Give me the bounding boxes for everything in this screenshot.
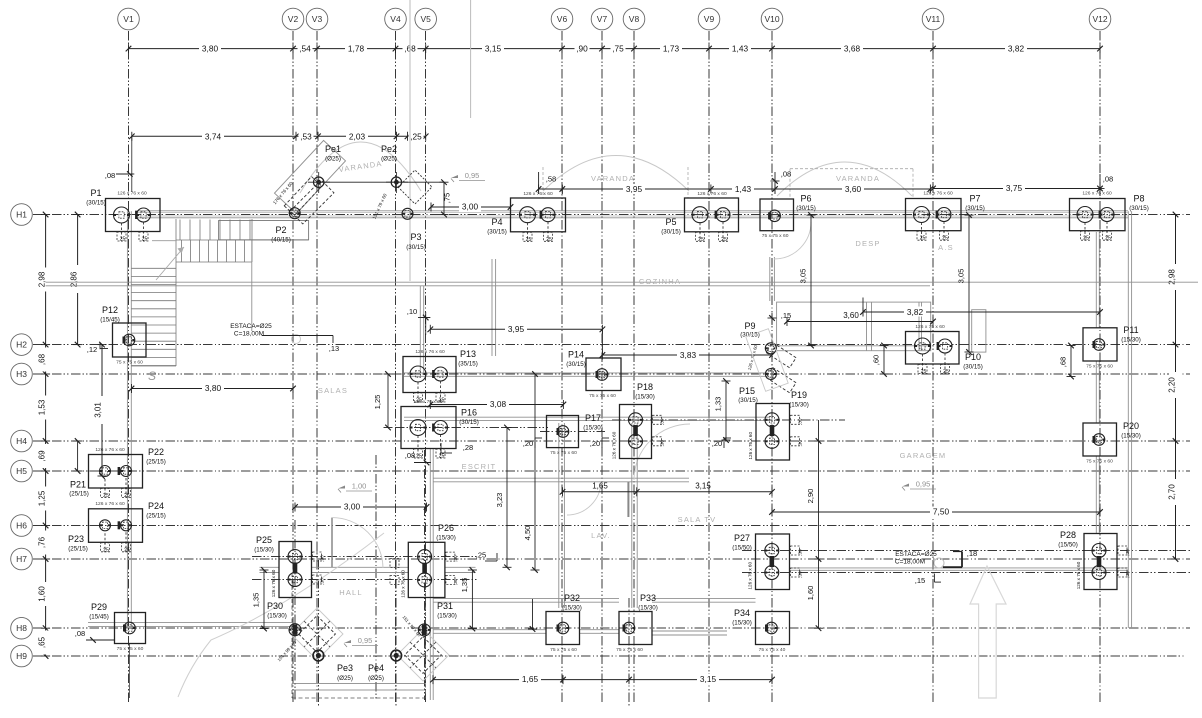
- column P17: [547, 416, 579, 448]
- dim 1,35 porch left: [263, 570, 265, 629]
- level mark 0,95 garagem: [902, 484, 909, 487]
- svg-text:Pe3: Pe3: [337, 663, 353, 673]
- svg-text:3,75: 3,75: [1006, 183, 1023, 193]
- section line top gray 2: [470, 0, 472, 118]
- column P24: [89, 509, 143, 543]
- axis H2 line: [33, 344, 1190, 346]
- axis bubble H2: [11, 334, 33, 356]
- svg-text:(25/15): (25/15): [146, 459, 166, 466]
- column P7: [906, 199, 962, 231]
- axis V7 line: [601, 31, 603, 703]
- garage window band: [777, 302, 931, 351]
- wall cozinha x493: [491, 259, 493, 356]
- porch dashed outline: [291, 573, 293, 698]
- svg-text:(30/15): (30/15): [86, 200, 106, 207]
- svg-text:(15/30): (15/30): [635, 394, 655, 401]
- svg-text:(25/15): (25/15): [69, 491, 89, 498]
- stair landing beam rect: [219, 221, 309, 240]
- svg-text:P15: P15: [739, 386, 755, 396]
- wall beam along H3: [404, 372, 768, 374]
- level mark 0,95 varanda: [451, 175, 458, 178]
- svg-text:75 x 75 x 60: 75 x 75 x 60: [117, 646, 144, 652]
- pile column axis x396: [395, 560, 397, 706]
- pile Pe3: [313, 650, 324, 661]
- svg-text:3,60: 3,60: [843, 311, 859, 320]
- svg-text:,30: ,30: [798, 549, 803, 556]
- svg-text:1,43: 1,43: [732, 44, 749, 54]
- axis V6 line: [561, 31, 563, 703]
- svg-text:(40/15): (40/15): [271, 237, 291, 244]
- svg-text:V6: V6: [557, 14, 568, 24]
- svg-text:,30: ,30: [660, 418, 665, 425]
- svg-text:P10: P10: [965, 352, 981, 362]
- wall v8 below: [631, 423, 633, 608]
- svg-text:1,33: 1,33: [714, 397, 723, 412]
- varanda arc right: [777, 162, 912, 196]
- door arc salatv: [634, 424, 690, 480]
- svg-text:(30/15): (30/15): [566, 361, 586, 368]
- axis H7 line: [33, 558, 1190, 560]
- svg-text:P20: P20: [1123, 421, 1139, 431]
- svg-text:P22: P22: [148, 447, 164, 457]
- svg-text:1,60: 1,60: [37, 586, 46, 602]
- pile row axis y420: [612, 419, 845, 421]
- stair upper flight risers: [180, 220, 250, 241]
- svg-text:,53: ,53: [300, 131, 312, 141]
- svg-text:,58: ,58: [546, 175, 557, 184]
- dim ,60 vertical: [883, 346, 885, 375]
- svg-text:H5: H5: [16, 466, 27, 476]
- svg-text:P5: P5: [665, 217, 676, 227]
- svg-text:25: 25: [103, 547, 109, 553]
- svg-text:P18: P18: [637, 382, 653, 392]
- dim 1,60 vertical: [818, 559, 820, 628]
- pile row axis y549: [742, 550, 1190, 552]
- dim 1,33 vertical: [725, 381, 727, 440]
- svg-text:75 x 75 x 60: 75 x 75 x 60: [616, 647, 643, 653]
- door arc lav: [567, 481, 601, 515]
- pile Pe2: [391, 177, 401, 187]
- svg-text:3,15: 3,15: [485, 44, 502, 54]
- svg-text:(30/15): (30/15): [738, 397, 758, 404]
- axis V1 line: [128, 31, 130, 703]
- svg-text:H9: H9: [16, 651, 27, 661]
- dimension 3,01: [101, 345, 103, 476]
- svg-text:,68: ,68: [1059, 357, 1068, 367]
- svg-text:(30/15): (30/15): [459, 419, 479, 426]
- porch steps: [292, 683, 426, 685]
- svg-text:(30/15): (30/15): [487, 229, 507, 236]
- svg-text:(15/30): (15/30): [267, 613, 287, 620]
- svg-text:126 x 76 x 60: 126 x 76 x 60: [95, 447, 125, 453]
- svg-text:1,65: 1,65: [592, 482, 608, 491]
- svg-text:3,60: 3,60: [845, 184, 862, 194]
- column P6: [760, 199, 794, 231]
- axis V3 line: [316, 31, 318, 703]
- axis bubble V11: [922, 8, 944, 30]
- axis bubble V7: [591, 8, 613, 30]
- stair frame: [175, 219, 177, 366]
- svg-text:,75: ,75: [443, 193, 452, 203]
- column P13: [403, 357, 456, 393]
- pile Pe4: [391, 650, 402, 661]
- svg-text:,30: ,30: [453, 578, 458, 585]
- svg-text:VARANDA: VARANDA: [836, 174, 880, 183]
- wall salas right x422: [419, 286, 421, 373]
- svg-text:126 x 76 x 60: 126 x 76 x 60: [1082, 191, 1112, 197]
- svg-text:(15/30): (15/30): [789, 402, 809, 409]
- column P5: [685, 198, 739, 232]
- pile column axis x629: [628, 598, 630, 706]
- axis H3 line: [33, 373, 1190, 375]
- svg-text:P21: P21: [70, 480, 86, 490]
- svg-text:C=18,00M: C=18,00M: [234, 331, 264, 338]
- svg-text:,30: ,30: [1125, 571, 1130, 578]
- svg-text:,69: ,69: [37, 450, 46, 462]
- wall lav bottom y600: [433, 597, 619, 599]
- svg-text:SALA TV: SALA TV: [678, 515, 717, 524]
- wall interior y283: [46, 281, 1198, 283]
- level mark 0,95 porch: [344, 640, 351, 643]
- svg-text:,30: ,30: [798, 440, 803, 447]
- dim ,75 varanda vertical: [443, 182, 445, 214]
- column P11: [1083, 328, 1117, 361]
- svg-text:,20: ,20: [712, 439, 722, 448]
- pile column axis x318: [317, 560, 319, 706]
- column P33: [619, 612, 652, 645]
- dim 3,15 mid: [637, 491, 772, 493]
- svg-text:3,74: 3,74: [205, 131, 222, 141]
- axis V10 line: [771, 31, 773, 703]
- svg-text:25: 25: [942, 236, 948, 242]
- svg-text:(30/15): (30/15): [661, 229, 681, 236]
- top dimension chain: [129, 48, 1101, 50]
- dim 1,25 vertical: [387, 374, 389, 428]
- garage window band right: [972, 310, 986, 352]
- svg-text:(15/30): (15/30): [732, 620, 752, 627]
- svg-text:(15/30): (15/30): [562, 605, 582, 612]
- svg-text:ESTACA=Ø25: ESTACA=Ø25: [230, 323, 272, 330]
- svg-text:,65: ,65: [37, 636, 46, 648]
- wall bottom left along H8: [88, 621, 292, 623]
- axis bubble H5: [11, 460, 33, 482]
- column P10: [906, 332, 960, 365]
- svg-text:V1: V1: [123, 14, 134, 24]
- svg-text:1,60: 1,60: [806, 586, 815, 601]
- svg-text:V11: V11: [926, 14, 941, 24]
- svg-text:P34: P34: [734, 608, 750, 618]
- svg-text:(15/45): (15/45): [100, 317, 120, 324]
- svg-text:(15/50): (15/50): [1058, 542, 1078, 549]
- svg-text:(30/15): (30/15): [963, 364, 983, 371]
- svg-text:P3: P3: [410, 232, 421, 242]
- svg-text:3,08: 3,08: [490, 399, 507, 409]
- svg-text:(15/30): (15/30): [437, 613, 457, 620]
- second dimension chain: [132, 135, 426, 137]
- svg-text:126 x 76 x 60: 126 x 76 x 60: [748, 432, 753, 460]
- svg-text:,12: ,12: [87, 345, 98, 354]
- door jamb salatv: [627, 482, 629, 517]
- dim 3,95 salas: [430, 328, 602, 330]
- column P2 rotated: [274, 140, 345, 213]
- svg-text:H7: H7: [16, 554, 27, 564]
- svg-text:V8: V8: [629, 14, 640, 24]
- svg-text:P29: P29: [91, 602, 107, 612]
- pile row axis y427.5: [395, 427, 548, 429]
- stair arrow: [156, 247, 184, 280]
- axis bubble V10: [761, 8, 783, 30]
- axis bubble V5: [415, 8, 437, 30]
- svg-text:P33: P33: [640, 593, 656, 603]
- axis bubble H9: [11, 645, 33, 667]
- dim 3,83: [602, 354, 772, 356]
- svg-text:S: S: [148, 369, 156, 383]
- svg-text:SALAS: SALAS: [318, 386, 348, 395]
- svg-text:75 x 75 x 60: 75 x 75 x 60: [550, 450, 577, 456]
- svg-text:3,95: 3,95: [626, 184, 643, 194]
- svg-text:P17: P17: [585, 413, 601, 423]
- svg-text:3,95: 3,95: [508, 324, 525, 334]
- wall left vertical: [126, 211, 128, 626]
- svg-text:3,05: 3,05: [957, 269, 966, 284]
- svg-text:75 x 75 x 40: 75 x 75 x 40: [759, 647, 786, 653]
- svg-text:75 x 75 x 60: 75 x 75 x 60: [589, 393, 616, 399]
- svg-text:25: 25: [120, 237, 126, 243]
- svg-text:2,20: 2,20: [1167, 377, 1176, 393]
- svg-text:25: 25: [1083, 236, 1089, 242]
- svg-text:25: 25: [124, 493, 130, 499]
- svg-text:1,25: 1,25: [37, 490, 46, 506]
- dim 4,50 vertical: [534, 374, 536, 570]
- svg-text:25: 25: [943, 369, 949, 375]
- svg-text:(25/15): (25/15): [146, 513, 166, 520]
- right dimension chain: [1175, 215, 1177, 560]
- svg-text:3,15: 3,15: [695, 482, 711, 491]
- svg-text:0,95: 0,95: [916, 480, 931, 489]
- dim 3,74row done / dim varanda line y187.5: [539, 188, 931, 190]
- svg-text:1,43: 1,43: [735, 184, 752, 194]
- svg-text:3,00: 3,00: [462, 202, 479, 212]
- column P30 pile: [289, 624, 301, 636]
- axis H6 line: [33, 525, 1190, 527]
- svg-text:25: 25: [103, 493, 109, 499]
- axis bubble H3: [11, 363, 33, 385]
- svg-text:1,00: 1,00: [352, 482, 367, 491]
- svg-text:,18: ,18: [967, 549, 978, 558]
- svg-text:,08: ,08: [781, 170, 792, 179]
- svg-text:H4: H4: [16, 436, 27, 446]
- dim 2,90 vertical: [818, 420, 820, 559]
- pile Pe1: [314, 177, 324, 187]
- column P27: [756, 534, 790, 590]
- svg-text:7,50: 7,50: [933, 507, 950, 517]
- svg-text:,30: ,30: [1125, 549, 1130, 556]
- svg-text:126 x 76 x 60: 126 x 76 x 60: [923, 191, 953, 197]
- door arc desp: [774, 222, 811, 259]
- column P4: [511, 198, 566, 232]
- wall desp x772: [769, 257, 771, 301]
- dim 1,35 porch right: [471, 570, 473, 629]
- dim 3,23 vertical: [506, 428, 508, 568]
- dim 3,08: [430, 404, 563, 406]
- varanda arc middle: [543, 156, 689, 192]
- svg-text:(30/15): (30/15): [965, 205, 985, 212]
- svg-text:126 x 76 x 60: 126 x 76 x 60: [413, 399, 443, 405]
- svg-text:126 x 76 x 60: 126 x 76 x 60: [612, 431, 617, 459]
- svg-text:(Ø25): (Ø25): [368, 675, 384, 682]
- axis bubble H4: [11, 430, 33, 452]
- svg-text:V4: V4: [390, 14, 401, 24]
- svg-text:V2: V2: [288, 14, 299, 24]
- svg-text:(30/15): (30/15): [406, 244, 426, 251]
- svg-text:,20: ,20: [523, 439, 533, 448]
- svg-text:P13: P13: [460, 349, 476, 359]
- wall right vertical: [1127, 211, 1129, 628]
- axis bubble V1: [118, 8, 140, 30]
- svg-text:25: 25: [721, 237, 727, 243]
- svg-text:0,95: 0,95: [465, 171, 480, 180]
- axis bubble V3: [306, 8, 328, 30]
- axis V4 line: [395, 31, 397, 703]
- stair middle flight risers: [182, 240, 245, 262]
- svg-text:2,03: 2,03: [349, 131, 366, 141]
- svg-text:126 x 76 x 60: 126 x 76 x 60: [95, 501, 125, 507]
- svg-text:P8: P8: [1133, 194, 1144, 204]
- svg-text:,20: ,20: [590, 439, 600, 448]
- axis bubble H1: [11, 204, 33, 226]
- svg-text:25: 25: [124, 547, 130, 553]
- svg-text:ESCRIT: ESCRIT: [462, 462, 497, 471]
- axis bubble H6: [11, 515, 33, 537]
- svg-text:V10: V10: [764, 14, 779, 24]
- pile column axis x376: [375, 455, 377, 700]
- svg-text:75 x 75 x 60: 75 x 75 x 60: [550, 647, 577, 653]
- svg-text:75 x 75 x 60: 75 x 75 x 60: [1086, 459, 1113, 465]
- axis bubble H7: [11, 548, 33, 570]
- hall door leaf and arc: [331, 518, 333, 568]
- svg-text:,28: ,28: [463, 443, 473, 452]
- section line top gray: [409, 0, 411, 281]
- svg-text:126 x 76 x 60: 126 x 76 x 60: [271, 569, 276, 597]
- column P14: [586, 358, 621, 391]
- axis V5 line: [425, 31, 427, 703]
- svg-text:VARANDA: VARANDA: [591, 174, 635, 183]
- svg-text:(35/15): (35/15): [458, 361, 478, 368]
- svg-text:3,05: 3,05: [799, 269, 808, 284]
- svg-text:,25: ,25: [410, 131, 422, 141]
- svg-text:1,65: 1,65: [522, 674, 539, 684]
- pile column axis x295: [294, 520, 296, 700]
- svg-text:2,70: 2,70: [1167, 484, 1176, 500]
- svg-text:(Ø25): (Ø25): [337, 675, 353, 682]
- dim 3,00 left of P4: [431, 206, 511, 208]
- svg-text:,08: ,08: [75, 629, 85, 638]
- svg-text:V9: V9: [704, 14, 715, 24]
- svg-text:,30: ,30: [798, 571, 803, 578]
- wall bottom beams y630: [433, 629, 546, 631]
- svg-text:1,35: 1,35: [460, 578, 469, 593]
- svg-text:(15/30): (15/30): [436, 535, 456, 542]
- dim 7,50: [772, 511, 1100, 513]
- svg-text:V7: V7: [597, 14, 608, 24]
- svg-text:126 x 76 x 60: 126 x 76 x 60: [415, 349, 445, 355]
- svg-text:3,23: 3,23: [495, 493, 504, 508]
- axis bubble V4: [385, 8, 407, 30]
- svg-text:126 x 76 x 60: 126 x 76 x 60: [748, 562, 753, 590]
- svg-text:2,90: 2,90: [806, 489, 815, 504]
- svg-text:P2: P2: [275, 225, 286, 235]
- svg-text:75 x 75 x 60: 75 x 75 x 60: [1086, 364, 1113, 370]
- svg-text:126 x 76 x 60: 126 x 76 x 60: [1076, 561, 1081, 589]
- svg-text:P11: P11: [1123, 325, 1138, 335]
- column P29: [115, 613, 146, 644]
- svg-text:75 x 75 x 60: 75 x 75 x 60: [762, 233, 789, 239]
- svg-text:(30/15): (30/15): [796, 205, 816, 212]
- svg-text:Pe4: Pe4: [368, 663, 384, 673]
- svg-text:1,25: 1,25: [373, 395, 382, 410]
- column P16: [401, 407, 456, 449]
- svg-text:(25/15): (25/15): [68, 546, 88, 553]
- svg-text:4,50: 4,50: [523, 526, 532, 541]
- svg-text:LAV.: LAV.: [591, 531, 611, 540]
- svg-text:1,73: 1,73: [663, 44, 680, 54]
- svg-text:3,15: 3,15: [700, 674, 717, 684]
- axis V11 line: [932, 31, 934, 703]
- pile row axis y572: [742, 572, 1190, 574]
- svg-text:25: 25: [921, 369, 927, 375]
- axis H8 line: [33, 627, 1190, 629]
- axis bubble H8: [11, 617, 33, 639]
- wall lav top y480: [433, 477, 689, 479]
- axis bubble V9: [698, 8, 720, 30]
- axis bubble V8: [623, 8, 645, 30]
- axis bubble V2: [282, 8, 304, 30]
- column P8: [1070, 199, 1126, 231]
- svg-text:25: 25: [526, 237, 532, 243]
- svg-text:25: 25: [920, 236, 926, 242]
- svg-text:126 x 76 x 60: 126 x 76 x 60: [117, 191, 147, 197]
- svg-text:DESP: DESP: [855, 239, 880, 248]
- column P3: [402, 208, 413, 219]
- svg-text:126 x 76 x 60: 126 x 76 x 60: [697, 191, 727, 197]
- beam corridor y419: [404, 416, 770, 418]
- svg-text:1,78: 1,78: [348, 44, 365, 54]
- left dimension chain inner 2,86: [77, 215, 79, 345]
- dim 3,82 garage: [863, 311, 1100, 313]
- svg-text:Pe2: Pe2: [381, 144, 397, 154]
- column P22: [89, 455, 143, 489]
- axis bubble V6: [551, 8, 573, 30]
- svg-text:V3: V3: [312, 14, 323, 24]
- svg-text:126 x 75 x 60: 126 x 75 x 60: [915, 324, 945, 330]
- svg-text:P28: P28: [1060, 530, 1076, 540]
- svg-text:V12: V12: [1092, 14, 1107, 24]
- axis bubble V12: [1089, 8, 1111, 30]
- svg-text:,08: ,08: [1103, 175, 1114, 184]
- svg-text:P25: P25: [256, 535, 272, 545]
- column P19: [756, 404, 790, 461]
- column P25: [279, 542, 312, 598]
- svg-text:(30/15): (30/15): [1129, 205, 1149, 212]
- column P26: [408, 542, 445, 597]
- column P1: [106, 199, 161, 232]
- column P34: [756, 612, 790, 645]
- svg-text:P6: P6: [800, 194, 811, 204]
- svg-text:(15/45): (15/45): [89, 614, 109, 621]
- column P20: [1083, 423, 1117, 456]
- svg-text:H3: H3: [16, 369, 27, 379]
- svg-text:,10: ,10: [407, 307, 418, 316]
